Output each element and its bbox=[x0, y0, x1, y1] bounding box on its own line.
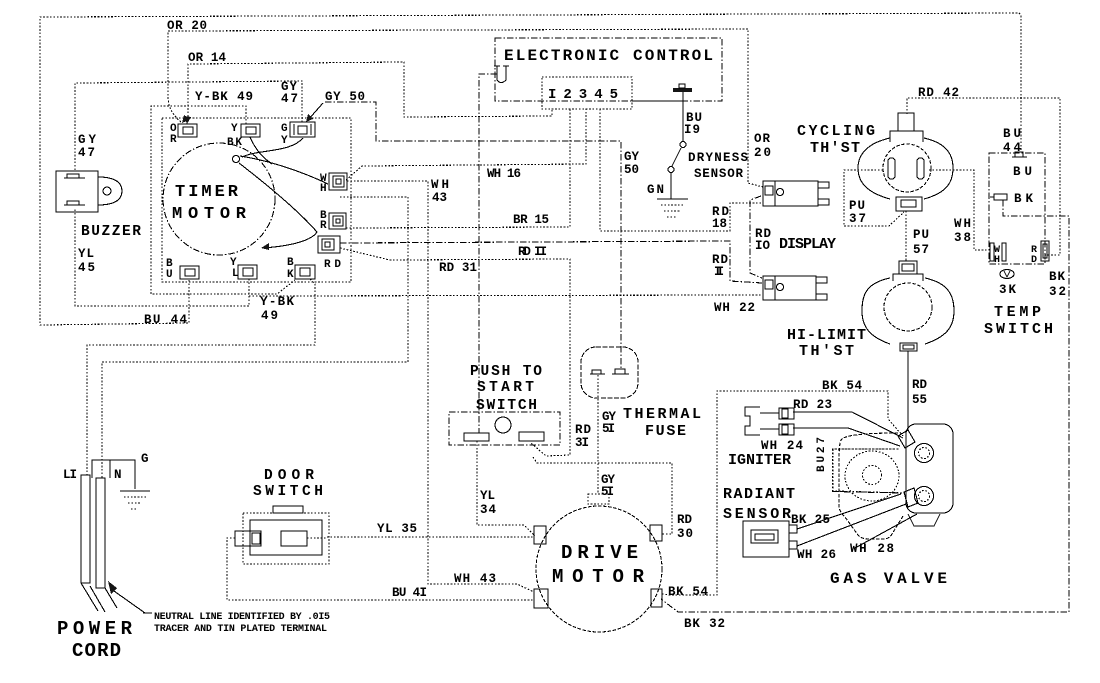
svg-text:FUSE: FUSE bbox=[645, 423, 686, 440]
svg-text:OR: OR bbox=[754, 132, 770, 146]
svg-text:MOTOR: MOTOR bbox=[552, 566, 645, 588]
svg-text:RD: RD bbox=[575, 423, 591, 437]
svg-text:B: B bbox=[287, 257, 294, 269]
svg-text:BK 32: BK 32 bbox=[684, 617, 725, 631]
svg-text:SWITCH: SWITCH bbox=[984, 321, 1053, 338]
svg-text:BUZZER: BUZZER bbox=[81, 224, 141, 240]
svg-text:D: D bbox=[1031, 255, 1037, 266]
svg-text:PUSH TO: PUSH TO bbox=[470, 364, 542, 380]
svg-text:G: G bbox=[141, 452, 149, 466]
svg-text:BK: BK bbox=[1014, 192, 1033, 206]
svg-text:RD: RD bbox=[324, 259, 341, 271]
svg-text:DRIVE: DRIVE bbox=[561, 542, 638, 564]
svg-text:HI-LIMIT: HI-LIMIT bbox=[787, 327, 866, 344]
svg-text:THERMAL: THERMAL bbox=[623, 406, 701, 423]
svg-text:G: G bbox=[281, 123, 288, 135]
svg-text:WH 24: WH 24 bbox=[761, 439, 803, 453]
svg-text:IO: IO bbox=[755, 239, 770, 253]
svg-text:WH 16: WH 16 bbox=[487, 167, 521, 181]
svg-text:BU: BU bbox=[1013, 165, 1032, 179]
svg-text:CYCLING: CYCLING bbox=[797, 123, 875, 140]
svg-text:BK: BK bbox=[1049, 270, 1065, 284]
svg-text:H: H bbox=[320, 183, 327, 195]
svg-text:GN: GN bbox=[647, 183, 664, 197]
svg-text:YL 35: YL 35 bbox=[377, 522, 417, 536]
svg-text:RADIANT: RADIANT bbox=[723, 486, 795, 503]
svg-text:32: 32 bbox=[1049, 285, 1066, 299]
svg-text:DOOR: DOOR bbox=[264, 468, 314, 484]
svg-text:BK 54: BK 54 bbox=[668, 585, 708, 599]
svg-text:Y-BK: Y-BK bbox=[260, 295, 294, 309]
svg-text:OR 14: OR 14 bbox=[188, 51, 226, 65]
svg-text:R: R bbox=[320, 220, 327, 232]
svg-text:45: 45 bbox=[78, 261, 95, 275]
svg-text:37: 37 bbox=[849, 212, 866, 226]
svg-text:YL: YL bbox=[78, 247, 94, 261]
svg-text:WH: WH bbox=[954, 217, 971, 231]
svg-text:SWITCH: SWITCH bbox=[253, 484, 323, 500]
svg-text:WH 43: WH 43 bbox=[454, 572, 496, 586]
svg-text:BK 54: BK 54 bbox=[822, 379, 862, 393]
svg-text:47: 47 bbox=[78, 146, 95, 160]
svg-text:30: 30 bbox=[677, 527, 693, 541]
svg-text:NEUTRAL LINE IDENTIFIED BY .0I: NEUTRAL LINE IDENTIFIED BY .0I5 bbox=[154, 612, 330, 623]
svg-text:55: 55 bbox=[912, 393, 927, 407]
svg-text:RD 23: RD 23 bbox=[793, 398, 832, 412]
svg-text:38: 38 bbox=[954, 231, 971, 245]
svg-text:3I: 3I bbox=[575, 436, 589, 450]
svg-text:SENSOR: SENSOR bbox=[694, 167, 743, 181]
svg-text:GY 50: GY 50 bbox=[325, 90, 365, 104]
svg-text:49: 49 bbox=[261, 309, 278, 323]
svg-text:3K: 3K bbox=[999, 283, 1016, 297]
svg-text:5I: 5I bbox=[602, 422, 615, 436]
svg-text:I 2 3 4 5: I 2 3 4 5 bbox=[548, 87, 618, 103]
svg-text:RD 31: RD 31 bbox=[439, 261, 477, 275]
svg-text:START: START bbox=[477, 380, 534, 396]
svg-text:ELECTRONIC CONTROL: ELECTRONIC CONTROL bbox=[504, 47, 713, 65]
svg-text:20: 20 bbox=[754, 146, 771, 160]
svg-text:N: N bbox=[114, 468, 122, 482]
svg-text:DRYNESS: DRYNESS bbox=[688, 151, 748, 165]
svg-text:43: 43 bbox=[432, 191, 447, 205]
svg-text:WH: WH bbox=[431, 178, 449, 192]
svg-text:Y: Y bbox=[231, 123, 238, 135]
svg-text:GY: GY bbox=[624, 150, 639, 164]
svg-text:WH 26: WH 26 bbox=[797, 548, 836, 562]
svg-text:RD II: RD II bbox=[518, 245, 547, 259]
svg-text:WH 22: WH 22 bbox=[714, 301, 755, 315]
svg-text:TIMER: TIMER bbox=[175, 183, 239, 202]
svg-text:II: II bbox=[714, 265, 724, 279]
svg-text:POWER: POWER bbox=[57, 618, 133, 640]
svg-text:50: 50 bbox=[624, 163, 639, 177]
svg-text:OR 20: OR 20 bbox=[167, 19, 207, 33]
svg-text:IGNITER: IGNITER bbox=[728, 452, 791, 469]
svg-text:47: 47 bbox=[281, 92, 298, 106]
svg-text:R: R bbox=[170, 134, 177, 146]
svg-text:YL: YL bbox=[480, 489, 495, 503]
svg-text:BU: BU bbox=[1003, 127, 1021, 141]
svg-text:57: 57 bbox=[913, 243, 929, 257]
svg-text:PU: PU bbox=[913, 228, 929, 242]
svg-text:RD: RD bbox=[677, 513, 692, 527]
svg-text:LI: LI bbox=[63, 468, 77, 482]
svg-text:MOTOR: MOTOR bbox=[172, 205, 247, 224]
svg-text:BU27: BU27 bbox=[816, 437, 828, 472]
svg-text:44: 44 bbox=[1003, 141, 1021, 155]
svg-text:U: U bbox=[166, 269, 173, 281]
svg-text:GAS VALVE: GAS VALVE bbox=[830, 570, 947, 588]
svg-text:L: L bbox=[232, 268, 239, 280]
svg-text:RD: RD bbox=[912, 378, 927, 392]
svg-text:TEMP: TEMP bbox=[994, 304, 1041, 321]
svg-text:Y: Y bbox=[281, 135, 288, 147]
svg-text:5I: 5I bbox=[601, 485, 614, 499]
svg-text:Y-BK 49: Y-BK 49 bbox=[195, 90, 253, 104]
svg-text:GY: GY bbox=[78, 133, 96, 147]
svg-text:CORD: CORD bbox=[72, 640, 121, 662]
svg-text:TRACER AND TIN PLATED TERMINAL: TRACER AND TIN PLATED TERMINAL bbox=[154, 624, 327, 635]
svg-text:BU 4I: BU 4I bbox=[392, 586, 427, 600]
svg-text:I9: I9 bbox=[684, 123, 700, 137]
svg-text:K: K bbox=[287, 269, 294, 281]
svg-text:WH 28: WH 28 bbox=[850, 542, 894, 556]
svg-text:18: 18 bbox=[712, 217, 727, 231]
svg-text:BK 25: BK 25 bbox=[791, 513, 830, 527]
svg-text:PU: PU bbox=[849, 199, 865, 213]
svg-text:TH'ST: TH'ST bbox=[799, 343, 854, 360]
svg-text:DISPLAY: DISPLAY bbox=[779, 236, 836, 253]
svg-text:H: H bbox=[994, 255, 1000, 266]
svg-text:BR 15: BR 15 bbox=[513, 213, 549, 227]
svg-text:TH'ST: TH'ST bbox=[810, 140, 860, 157]
svg-text:34: 34 bbox=[480, 503, 496, 517]
svg-text:BK: BK bbox=[227, 137, 242, 149]
svg-text:RD 42: RD 42 bbox=[918, 86, 959, 100]
svg-text:BU 44: BU 44 bbox=[144, 313, 187, 327]
